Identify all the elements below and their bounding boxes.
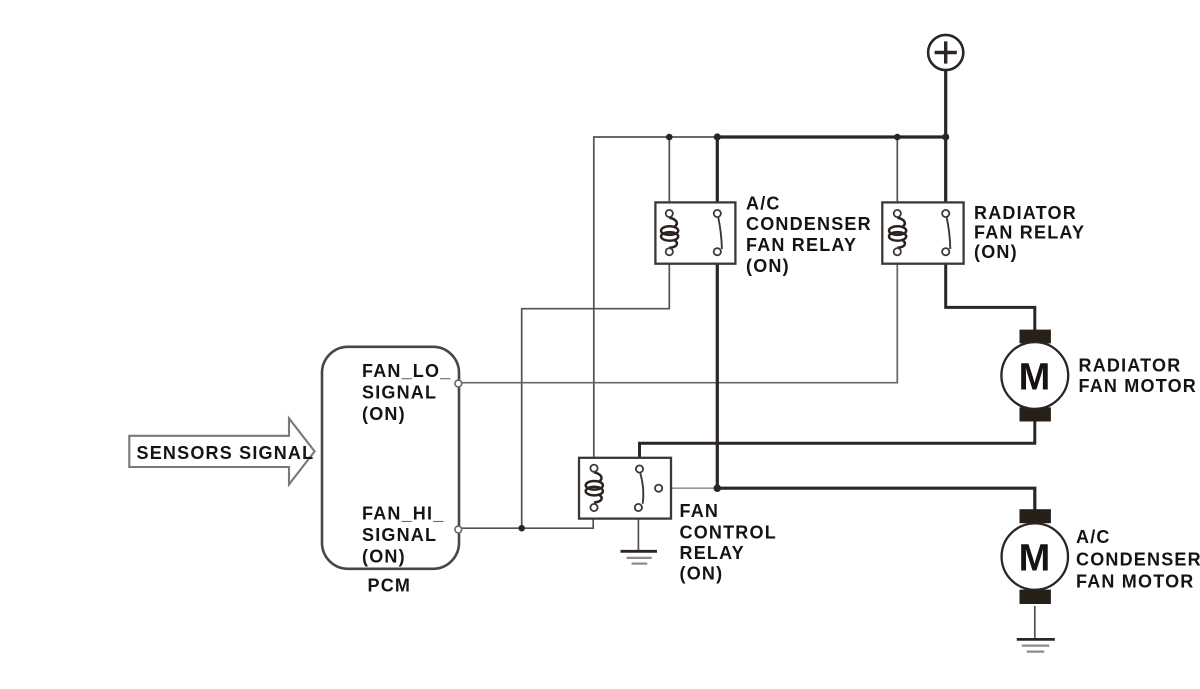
junction node FAN_HI branch <box>518 525 525 532</box>
label A/C CONDENSER FAN MOTOR <box>1076 527 1200 592</box>
radiator relay coil pins <box>894 210 901 217</box>
svg-text:M: M <box>1019 357 1051 399</box>
fan control relay coil pins <box>590 465 597 472</box>
SENSORS SIGNAL arrow <box>129 418 314 484</box>
radiator fan motor M1 <box>1001 330 1068 422</box>
PCM box <box>322 347 459 569</box>
wire: FAN_LO signal from PCM to radiator relay coil bottom <box>462 256 898 383</box>
wire: radiator motor low side to fan control relay switch (thick) <box>640 421 1035 466</box>
wire: radiator relay switch bottom to radiator fan motor (thick) <box>946 256 1035 332</box>
wire: FAN_HI signal from PCM to fan control relay coil bottom <box>462 511 594 528</box>
fan control relay U3 box <box>579 458 671 519</box>
svg-text:FAN_HI_: FAN_HI_ <box>362 503 444 523</box>
A/C condenser fan relay U1 box <box>655 202 735 263</box>
junction node A/C relay switch to motor <box>714 484 722 492</box>
battery positive power symbol <box>928 35 963 70</box>
svg-text:(ON): (ON) <box>362 546 406 566</box>
svg-text:CONTROL: CONTROL <box>680 523 777 543</box>
wire: bus thick segment <box>716 135 946 138</box>
wire: power drop from + to radiator fan relay switch (thick) <box>944 70 947 210</box>
wire: A/C relay switch top (thick) <box>716 137 719 210</box>
svg-text:FAN MOTOR: FAN MOTOR <box>1079 376 1197 396</box>
wire: A/C condenser fan motor to ground <box>1034 606 1036 639</box>
label FAN_LO_SIGNAL (ON) <box>362 361 451 424</box>
label FAN_HI_SIGNAL (ON) <box>362 503 444 566</box>
radiator relay switch blade <box>947 218 951 249</box>
junction node on bus at power drop <box>942 133 949 140</box>
fan control relay switch pins <box>636 465 643 472</box>
svg-text:FAN RELAY: FAN RELAY <box>746 235 857 255</box>
wire: A/C relay switch bottom to A/C condenser fan motor (thick) <box>717 256 1035 511</box>
junction node on bus at A/C relay switch <box>714 133 721 140</box>
fan control relay coil <box>586 472 603 502</box>
svg-text:(ON): (ON) <box>974 242 1018 262</box>
svg-text:FAN RELAY: FAN RELAY <box>974 223 1085 243</box>
fan control relay switch blade <box>640 473 643 504</box>
fan control relay common pin <box>655 485 662 492</box>
junction node on bus at A/C relay coil <box>666 134 673 141</box>
wire: fan control relay common pin to junction (light) <box>662 487 716 489</box>
svg-text:FAN: FAN <box>680 501 720 521</box>
A/C relay switch pins <box>714 210 721 217</box>
svg-text:PCM: PCM <box>368 575 412 595</box>
svg-text:FAN MOTOR: FAN MOTOR <box>1076 572 1194 592</box>
svg-text:(ON): (ON) <box>680 564 724 584</box>
svg-text:SENSORS SIGNAL: SENSORS SIGNAL <box>137 443 315 463</box>
wire: radiator fan relay coil top drop <box>896 137 898 210</box>
A/C relay switch blade <box>718 218 722 249</box>
svg-text:A/C: A/C <box>1076 527 1111 547</box>
svg-text:CONDENSER: CONDENSER <box>746 214 872 234</box>
svg-text:RELAY: RELAY <box>680 543 745 563</box>
svg-text:RADIATOR: RADIATOR <box>1079 355 1182 375</box>
wire: A/C condenser fan relay coil top drop <box>668 137 670 210</box>
radiator relay switch pins <box>942 210 949 217</box>
svg-text:(ON): (ON) <box>362 404 406 424</box>
svg-text:M: M <box>1019 538 1051 580</box>
label A/C CONDENSER FAN RELAY (ON) <box>746 193 872 275</box>
PCM pin FAN_HI <box>455 526 462 533</box>
label RADIATOR FAN MOTOR <box>1079 355 1197 396</box>
label RADIATOR FAN RELAY (ON) <box>974 203 1085 262</box>
radiator relay coil <box>889 218 906 248</box>
wire: bus thin segment <box>594 137 717 465</box>
ground under A/C condenser fan motor <box>1017 639 1055 651</box>
wire: fan control relay switch to ground <box>637 511 639 551</box>
A/C condenser fan motor M2 <box>1002 509 1068 604</box>
A/C relay coil <box>661 218 678 248</box>
label FAN CONTROL RELAY (ON) <box>680 501 777 583</box>
junction node on bus at radiator relay coil <box>894 134 901 141</box>
svg-text:(ON): (ON) <box>746 256 790 276</box>
radiator fan relay U2 box <box>882 202 963 263</box>
svg-text:CONDENSER: CONDENSER <box>1076 549 1200 569</box>
A/C relay coil pins <box>666 210 673 217</box>
ground under fan control relay <box>621 551 658 563</box>
wire: A/C relay coil bottom to FAN_HI branch <box>522 256 670 528</box>
PCM pin FAN_LO <box>455 380 462 387</box>
svg-text:FAN_LO_: FAN_LO_ <box>362 361 451 381</box>
svg-text:SIGNAL: SIGNAL <box>362 525 437 545</box>
svg-text:SIGNAL: SIGNAL <box>362 382 437 402</box>
svg-text:RADIATOR: RADIATOR <box>974 203 1077 223</box>
svg-text:A/C: A/C <box>746 193 781 213</box>
